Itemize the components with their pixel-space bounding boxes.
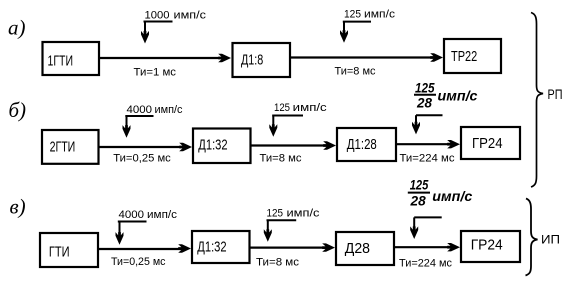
svg-text:125: 125 — [267, 208, 284, 220]
wire 1ГТИ to Д1:8 — [100, 54, 231, 62]
block Д1:8 — [233, 43, 291, 77]
svg-text:28: 28 — [410, 193, 426, 209]
value label 125 имп/с (row б) with down arrow — [269, 102, 327, 137]
value label Ти=8 мс (row в) — [256, 257, 300, 269]
block Д1:32 (row б) — [193, 129, 251, 164]
svg-text:ГТИ: ГТИ — [49, 244, 70, 260]
brace ИП grouping row в — [526, 199, 538, 276]
block Д1:32 (row в) — [192, 231, 250, 263]
svg-text:4000: 4000 — [119, 209, 145, 221]
svg-text:Ти=1 мс: Ти=1 мс — [134, 67, 177, 79]
row label б) — [9, 98, 27, 122]
value label 1000 имп/с with down arrow — [141, 10, 207, 44]
value label 125 имп/с with down arrow — [340, 8, 396, 42]
block ТР22 — [444, 39, 501, 73]
svg-text:ИП: ИП — [541, 233, 560, 247]
block ГР24 (row в) — [461, 231, 520, 262]
value label 125/28 имп/с fraction with corner down arrow (row б) — [412, 80, 478, 135]
svg-text:имп/с: имп/с — [174, 10, 207, 22]
net label ИП — [541, 233, 560, 247]
svg-text:Ти=8 мс: Ти=8 мс — [260, 153, 303, 165]
block ГР24 (row б) — [461, 127, 520, 159]
svg-text:ТР22: ТР22 — [451, 49, 477, 65]
value label Ти=224 мс (row в) — [399, 258, 452, 270]
svg-text:имп/с: имп/с — [364, 8, 396, 20]
svg-text:б): б) — [9, 98, 27, 122]
value label Ти=0,25 мс (row в) — [111, 256, 166, 268]
value label Ти=8 мс (row б) — [260, 153, 303, 165]
svg-text:125: 125 — [274, 102, 290, 114]
svg-text:а): а) — [8, 16, 26, 40]
value label 4000 имп/с (row в) with down arrow — [116, 209, 178, 245]
value label 125 имп/с (row в) with down arrow — [264, 208, 320, 242]
svg-text:имп/с: имп/с — [155, 104, 183, 116]
block 2ГТИ — [42, 130, 99, 164]
svg-text:28: 28 — [416, 95, 432, 111]
svg-text:4000: 4000 — [127, 104, 153, 116]
block ГТИ — [40, 233, 98, 267]
value label 125/28 имп/с fraction with corner down arrow (row в) — [408, 177, 473, 240]
svg-text:Ти=8 мс: Ти=8 мс — [256, 257, 300, 269]
svg-text:имп/с: имп/с — [287, 208, 321, 220]
net label РП — [548, 87, 563, 102]
wire Д1:28 to ГР24 — [397, 140, 460, 148]
brace РП grouping rows а and б — [531, 13, 543, 188]
svg-text:Ти=0,25 мс: Ти=0,25 мс — [113, 153, 171, 165]
svg-text:Ти=224 мс: Ти=224 мс — [399, 258, 452, 270]
row label в) — [10, 195, 26, 219]
block Д1:28 — [337, 128, 396, 161]
svg-text:125: 125 — [410, 177, 429, 193]
svg-text:Д1:28: Д1:28 — [347, 137, 377, 153]
wire 2ГТИ to Д1:32 — [99, 143, 192, 151]
svg-text:125: 125 — [415, 80, 435, 96]
svg-text:Д1:32: Д1:32 — [198, 137, 227, 153]
svg-text:в): в) — [10, 195, 26, 219]
wire Д1:8 to ТР22 — [291, 53, 443, 61]
wire ГТИ to Д1:32 — [99, 244, 191, 252]
value label Ти=0,25 мс — [113, 153, 171, 165]
svg-text:125: 125 — [344, 8, 361, 20]
value label 4000 имп/с with down arrow — [123, 104, 183, 138]
svg-text:Д28: Д28 — [345, 241, 370, 257]
wire Д28 to ГР24 — [395, 243, 460, 251]
block Д28 — [336, 232, 394, 265]
svg-text:Ти=0,25 мс: Ти=0,25 мс — [111, 256, 166, 268]
svg-text:Д1:32: Д1:32 — [197, 240, 226, 256]
svg-text:имп/с: имп/с — [293, 102, 328, 114]
svg-text:Ти=8 мс: Ти=8 мс — [335, 66, 376, 78]
svg-text:1000: 1000 — [145, 10, 170, 22]
svg-text:ГР24: ГР24 — [472, 136, 503, 152]
svg-text:Д1:8: Д1:8 — [241, 52, 263, 68]
value label Ти=8 мс — [335, 66, 376, 78]
svg-text:имп/с: имп/с — [432, 188, 472, 204]
wire Д1:32 to Д1:28 — [252, 141, 337, 149]
row label а) — [8, 16, 26, 40]
svg-text:имп/с: имп/с — [438, 88, 478, 104]
value label Ти=1 мс — [134, 67, 177, 79]
svg-text:Ти=224 мс: Ти=224 мс — [400, 153, 456, 165]
value label Ти=224 мс (row б) — [400, 153, 456, 165]
svg-text:имп/с: имп/с — [147, 209, 178, 221]
svg-text:2ГТИ: 2ГТИ — [50, 139, 76, 155]
svg-text:1ГТИ: 1ГТИ — [48, 53, 74, 69]
svg-text:РП: РП — [548, 87, 563, 102]
wire Д1:32 to Д28 — [250, 243, 336, 251]
svg-text:ГР24: ГР24 — [471, 238, 503, 254]
block 1ГТИ — [43, 42, 100, 75]
